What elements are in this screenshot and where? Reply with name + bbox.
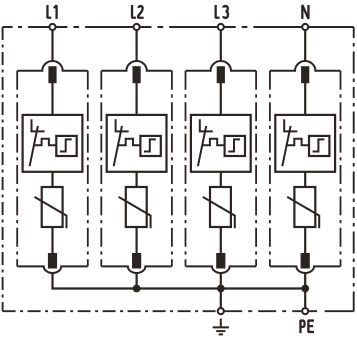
- module boundary bottom edge with plug-contact arc (L3 path): [186, 266, 257, 273]
- disconnector switch blade: [282, 126, 290, 166]
- junction node (L3 path to PE bus): [217, 285, 225, 293]
- module boundary top edge with plug-contact arc (L3 path): [186, 61, 257, 71]
- varistor RV (L3 path) body: [210, 187, 231, 227]
- thermal disconnector / monitoring box UL2: [107, 115, 167, 172]
- label PE: [300, 321, 314, 334]
- wire varistor to bottom plug contact: [51, 227, 53, 255]
- wire disconnector box to varistor: [51, 172, 53, 188]
- module boundary bottom edge with plug-contact arc (L2 path): [101, 266, 172, 273]
- label L3: [216, 5, 228, 18]
- terminal PE: [302, 308, 308, 314]
- enclosure border right edge: [353, 27, 355, 311]
- wire disconnector box to varistor: [136, 172, 138, 188]
- terminal N: [302, 24, 308, 30]
- earth terminal node: [218, 308, 224, 314]
- module boundary bottom edge with plug-contact arc (N path): [270, 266, 341, 273]
- thermal disconnector / monitoring box UN: [275, 115, 335, 172]
- enclosure border top segment (left corner to L1): [3, 26, 50, 28]
- thermal disconnector / monitoring box UL1: [23, 115, 83, 172]
- disconnector fixed contact lead: [32, 119, 45, 131]
- wire top contact to disconnector box: [136, 83, 138, 116]
- disconnector switch blade: [114, 126, 122, 166]
- step-function symbol inside indicator: [313, 139, 325, 151]
- disconnector fixed contact lead: [116, 119, 129, 131]
- terminal L1: [49, 24, 55, 30]
- bottom plug contact terminal block (L3): [216, 253, 225, 269]
- wire L1 terminal to top plug contact: [51, 30, 53, 60]
- plug-in protection module (L3 path): [186, 30, 257, 288]
- module boundary right edge (L1 path): [87, 71, 89, 267]
- wire bottom contact to PE bus: [304, 274, 306, 289]
- terminal L3: [218, 24, 224, 30]
- enclosure border top segment (N to right corner): [309, 26, 354, 28]
- wire L2 terminal to top plug contact: [136, 30, 138, 60]
- wire N terminal to top plug contact: [304, 30, 306, 60]
- top plug contact terminal block (L1): [48, 66, 56, 83]
- module boundary left edge (L1 path): [16, 71, 18, 267]
- varistor RV (N path) body: [294, 187, 315, 227]
- module boundary left edge (L2 path): [100, 71, 102, 267]
- junction node (L2 path to PE bus): [133, 285, 141, 293]
- module boundary top edge with plug-contact arc (N path): [270, 61, 341, 71]
- wire disconnector box to varistor: [220, 172, 222, 188]
- varistor diagonal stroke: [287, 197, 319, 228]
- thermal disconnector / monitoring box UL3: [191, 115, 251, 172]
- wire top contact to disconnector box: [304, 83, 306, 116]
- label N: [302, 5, 308, 19]
- label L2: [132, 5, 144, 18]
- plug-in protection module (N path): [270, 30, 341, 288]
- disconnector fixed contact lead: [284, 119, 297, 131]
- status indicator box: [140, 136, 160, 156]
- enclosure border bottom segment (PE node to right corner): [309, 310, 354, 312]
- varistor diagonal stroke: [203, 197, 235, 228]
- wire PE bus to PE terminal: [304, 289, 306, 308]
- enclosure border top segment (L1 to L2): [56, 26, 133, 28]
- wire varistor to bottom plug contact: [220, 227, 222, 255]
- module boundary left edge (N path): [269, 71, 271, 267]
- wire L3 terminal to top plug contact: [220, 30, 222, 60]
- wire bottom contact to PE bus: [220, 274, 222, 289]
- status indicator box: [56, 136, 76, 156]
- mechanical linkage (square-wave link) to indicator: [287, 139, 309, 146]
- enclosure border top segment (L2 to L3): [140, 26, 217, 28]
- varistor diagonal stroke: [119, 197, 151, 228]
- top plug contact terminal block (L3): [217, 66, 225, 83]
- mechanical linkage (square-wave link) to indicator: [118, 139, 140, 146]
- bottom plug contact terminal block (N): [301, 253, 310, 269]
- varistor RV (L1 path) body: [42, 187, 63, 227]
- disconnector switch blade: [30, 126, 38, 166]
- enclosure border bottom segment (left corner to earth node): [3, 310, 218, 312]
- wire varistor to bottom plug contact: [136, 227, 138, 255]
- module boundary top edge with plug-contact arc (L1 path): [17, 61, 88, 71]
- module boundary right edge (L2 path): [171, 71, 173, 267]
- wire varistor to bottom plug contact: [304, 227, 306, 255]
- enclosure border top segment (L3 to N): [224, 26, 302, 28]
- enclosure border left edge: [2, 27, 4, 311]
- module boundary top edge with plug-contact arc (L2 path): [101, 61, 172, 71]
- varistor diagonal stroke: [35, 197, 67, 228]
- terminal L2: [134, 24, 140, 30]
- wire bottom contact to PE bus: [51, 274, 53, 289]
- wire top contact to disconnector box: [51, 83, 53, 116]
- step-function symbol inside indicator: [228, 139, 240, 151]
- wire bottom contact to PE bus: [136, 274, 138, 289]
- wire PE bus to earth terminal: [220, 289, 222, 309]
- step-function symbol inside indicator: [144, 139, 156, 151]
- module boundary left edge (L3 path): [185, 71, 187, 267]
- label L1: [47, 5, 56, 19]
- top plug contact terminal block (N): [301, 66, 309, 83]
- disconnector fixed contact lead: [200, 119, 213, 131]
- top plug contact terminal block (L2): [133, 66, 141, 83]
- module boundary right edge (N path): [340, 71, 342, 267]
- disconnector switch blade: [198, 126, 206, 166]
- plug-in protection module (L2 path): [101, 30, 172, 288]
- PE bus wire: [51, 287, 305, 289]
- varistor RV (L2 path) body: [126, 187, 147, 227]
- mechanical linkage (square-wave link) to indicator: [202, 139, 224, 146]
- step-function symbol inside indicator: [60, 139, 72, 151]
- bottom plug contact terminal block (L2): [132, 253, 141, 269]
- enclosure border bottom segment (earth node to PE node): [224, 310, 302, 312]
- status indicator box: [225, 136, 245, 156]
- junction node (N path to PE bus): [301, 285, 309, 293]
- wire disconnector box to varistor: [304, 172, 306, 188]
- ground (earth) symbol: [213, 319, 229, 335]
- wire top contact to disconnector box: [220, 83, 222, 116]
- module boundary right edge (L3 path): [255, 71, 257, 267]
- module boundary bottom edge with plug-contact arc (L1 path): [17, 266, 88, 273]
- plug-in protection module (L1 path): [17, 30, 88, 288]
- bottom plug contact terminal block (L1): [48, 253, 57, 269]
- status indicator box: [309, 136, 329, 156]
- mechanical linkage (square-wave link) to indicator: [34, 139, 56, 146]
